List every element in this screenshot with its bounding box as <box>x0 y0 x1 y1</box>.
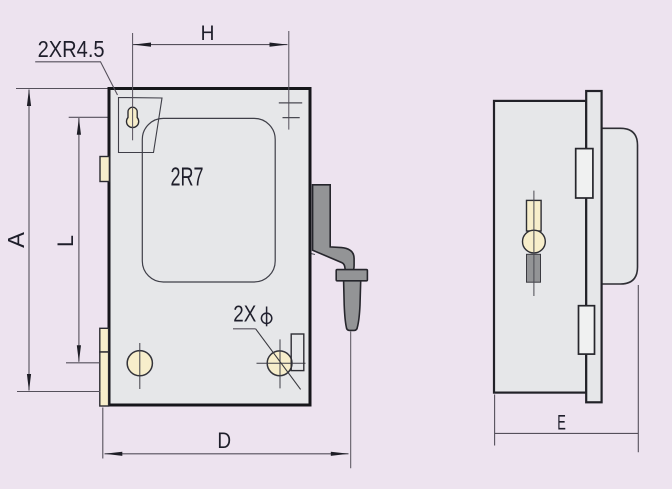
svg-text:A: A <box>3 231 29 247</box>
svg-text:L: L <box>53 235 78 247</box>
svg-text:H: H <box>201 20 215 45</box>
svg-text:2R7: 2R7 <box>171 164 204 192</box>
svg-text:2XR4.5: 2XR4.5 <box>38 36 105 62</box>
svg-text:2X: 2X <box>233 301 256 327</box>
svg-text:E: E <box>557 410 566 435</box>
svg-text:D: D <box>217 428 231 453</box>
